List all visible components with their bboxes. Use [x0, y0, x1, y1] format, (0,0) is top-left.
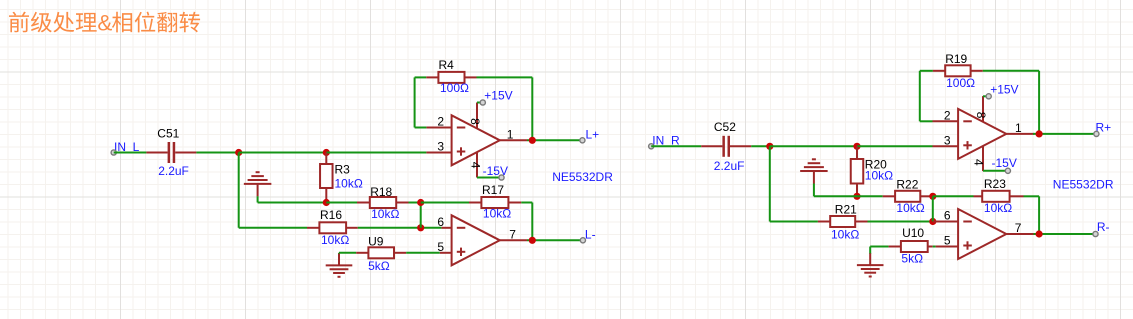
- wire pin5: [936, 246, 959, 248]
- wire: [477, 76, 533, 78]
- resistor R3: [320, 153, 363, 203]
- svg-text:4: 4: [469, 162, 483, 169]
- wire: [239, 227, 307, 229]
- resistor R17: [469, 183, 521, 220]
- wire: [196, 152, 238, 154]
- resistor R16: [307, 208, 358, 247]
- junction: [529, 137, 536, 144]
- wire: [1024, 195, 1040, 197]
- wire: [1033, 133, 1096, 135]
- svg-text:8: 8: [468, 118, 482, 125]
- pin IN_R: [649, 144, 654, 149]
- svg-text:R17: R17: [482, 183, 504, 197]
- wire: [920, 120, 933, 122]
- svg-text:3: 3: [944, 133, 951, 147]
- op-amp U9B (NE5532DR): [437, 215, 527, 265]
- resistor R20: [851, 146, 893, 196]
- svg-text:R21: R21: [835, 203, 857, 217]
- svg-text:10kΩ: 10kΩ: [371, 207, 399, 221]
- ground earth: [244, 172, 272, 196]
- wire: [338, 253, 340, 260]
- resistor U9: [356, 235, 406, 273]
- power -15V: [983, 156, 1017, 171]
- junction: [929, 218, 936, 225]
- wire: [769, 146, 771, 221]
- wire: [409, 202, 421, 204]
- svg-text:5: 5: [944, 234, 951, 248]
- svg-text:NE5532DR: NE5532DR: [552, 170, 613, 184]
- wire pin3: [933, 145, 959, 147]
- wire: [919, 71, 921, 122]
- svg-text:100Ω: 100Ω: [946, 76, 975, 90]
- svg-text:C52: C52: [714, 120, 736, 134]
- wire: [933, 246, 936, 248]
- wire pin3: [426, 152, 451, 154]
- svg-text:10kΩ: 10kΩ: [831, 228, 859, 242]
- wire: [326, 202, 357, 204]
- op-amp U10A (NE5532DR): [944, 96, 1034, 171]
- svg-text:R22: R22: [896, 178, 918, 192]
- wire pin2 feedback: [933, 120, 959, 122]
- wire: [414, 77, 416, 127]
- junction: [235, 149, 242, 156]
- op-amp U10B (NE5532DR): [944, 209, 1034, 260]
- junction: [529, 237, 536, 244]
- svg-text:L-: L-: [585, 227, 596, 241]
- svg-text:R18: R18: [370, 185, 392, 199]
- svg-text:10kΩ: 10kΩ: [321, 233, 349, 247]
- wire: [406, 252, 440, 254]
- junction: [323, 199, 330, 206]
- pin R-: [1093, 231, 1098, 236]
- pin +15V: [986, 94, 991, 99]
- wire: [920, 70, 933, 72]
- wire: [415, 127, 427, 129]
- resistor R23: [974, 177, 1024, 215]
- pin -15V: [499, 175, 504, 180]
- svg-text:U9: U9: [368, 235, 384, 249]
- power +15V: [983, 82, 1019, 96]
- wire: [814, 195, 857, 197]
- junction: [417, 199, 424, 206]
- wire: [770, 145, 857, 147]
- svg-text:1: 1: [1015, 121, 1022, 135]
- junction: [929, 193, 936, 200]
- wire pin6: [441, 227, 451, 229]
- svg-text:5kΩ: 5kΩ: [901, 252, 923, 266]
- resistor R4: [426, 58, 476, 95]
- svg-text:8: 8: [974, 112, 988, 119]
- resistor R21: [818, 203, 868, 242]
- wire: [420, 203, 422, 228]
- wire: [751, 145, 770, 147]
- pin +15V: [480, 100, 485, 105]
- svg-text:C51: C51: [157, 127, 179, 141]
- svg-text:R16: R16: [320, 208, 342, 222]
- svg-text:10kΩ: 10kΩ: [335, 176, 363, 190]
- svg-text:+15V: +15V: [484, 89, 512, 103]
- svg-text:-15V: -15V: [992, 156, 1017, 170]
- wire: [527, 239, 583, 241]
- svg-text:NE5532DR: NE5532DR: [1053, 178, 1114, 192]
- wire: [869, 247, 871, 255]
- wire: [770, 221, 818, 223]
- ground earth: [800, 159, 828, 183]
- wire: [651, 145, 701, 147]
- wire: [531, 203, 533, 241]
- resistor R22: [883, 178, 930, 215]
- wire: [868, 221, 933, 223]
- svg-text:5: 5: [437, 240, 444, 254]
- svg-text:2.2uF: 2.2uF: [714, 159, 745, 173]
- resistor U10: [889, 226, 933, 265]
- svg-text:10kΩ: 10kΩ: [865, 169, 893, 183]
- wire: [527, 139, 582, 141]
- wire: [421, 202, 469, 204]
- wire: [983, 170, 1007, 172]
- wire pin2 feedback: [426, 127, 451, 129]
- svg-text:R3: R3: [335, 162, 351, 176]
- wire: [114, 152, 147, 154]
- power -15V: [477, 164, 508, 178]
- junction: [1036, 130, 1043, 137]
- wire: [258, 202, 327, 204]
- wire: [238, 153, 240, 228]
- svg-text:10kΩ: 10kΩ: [896, 201, 924, 215]
- ground: [326, 253, 353, 277]
- junction: [853, 193, 860, 200]
- svg-text:4: 4: [971, 159, 985, 166]
- svg-text:6: 6: [944, 209, 951, 223]
- junction: [1036, 230, 1043, 237]
- svg-text:10kΩ: 10kΩ: [483, 206, 511, 220]
- op-amp U9A (NE5532DR): [437, 103, 527, 178]
- svg-text:100Ω: 100Ω: [440, 81, 469, 95]
- svg-text:R23: R23: [984, 177, 1006, 191]
- wire: [1034, 233, 1096, 235]
- wire: [857, 195, 883, 197]
- svg-text:10kΩ: 10kΩ: [984, 201, 1012, 215]
- svg-text:1: 1: [507, 127, 514, 141]
- wire: [531, 77, 533, 140]
- resistor R18: [357, 185, 409, 221]
- wire: [415, 76, 427, 78]
- power +15V: [477, 89, 513, 103]
- junction: [323, 149, 330, 156]
- svg-text:5kΩ: 5kΩ: [368, 259, 390, 273]
- wire: [239, 152, 327, 154]
- junction: [766, 143, 773, 150]
- svg-text:R-: R-: [1097, 220, 1110, 234]
- svg-text:3: 3: [437, 140, 444, 154]
- wire: [326, 152, 426, 154]
- wire: [1038, 196, 1040, 234]
- svg-text:2.2uF: 2.2uF: [158, 164, 189, 178]
- svg-text:R4: R4: [439, 58, 455, 72]
- capacitor C52: [701, 120, 751, 173]
- pin IN_L: [111, 150, 116, 155]
- svg-text:R19: R19: [945, 52, 967, 66]
- svg-text:U10: U10: [902, 226, 924, 240]
- pin L-: [580, 238, 585, 243]
- title text 前级处理&相位翻转: [9, 11, 200, 36]
- wire: [358, 227, 442, 229]
- resistor R19: [933, 52, 983, 90]
- wire: [813, 184, 815, 197]
- ground: [857, 247, 884, 277]
- pin -15V: [1005, 168, 1010, 173]
- junction: [417, 224, 424, 231]
- svg-text:IN_R: IN_R: [652, 133, 680, 147]
- pin L+: [580, 138, 585, 143]
- svg-text:2: 2: [944, 108, 951, 122]
- wire: [983, 70, 1039, 72]
- capacitor C51: [146, 127, 196, 179]
- svg-text:7: 7: [509, 227, 516, 241]
- wire: [857, 145, 933, 147]
- wire: [257, 196, 259, 202]
- wire: [1038, 71, 1040, 134]
- wire: [521, 202, 532, 204]
- svg-text:&: &: [97, 11, 112, 36]
- wire: [983, 95, 987, 97]
- svg-text:7: 7: [1015, 221, 1022, 235]
- wire pin5: [440, 252, 452, 254]
- wire: [477, 177, 501, 179]
- svg-text:+15V: +15V: [990, 82, 1018, 96]
- wire: [870, 246, 888, 248]
- svg-text:2: 2: [437, 115, 444, 129]
- wire: [933, 195, 974, 197]
- wire: [477, 102, 480, 104]
- wire: [932, 196, 934, 221]
- wire pin6: [933, 221, 958, 223]
- junction: [853, 143, 860, 150]
- svg-text:6: 6: [437, 215, 444, 229]
- wire: [339, 252, 356, 254]
- svg-text:L+: L+: [586, 127, 600, 141]
- pin R+: [1094, 131, 1099, 136]
